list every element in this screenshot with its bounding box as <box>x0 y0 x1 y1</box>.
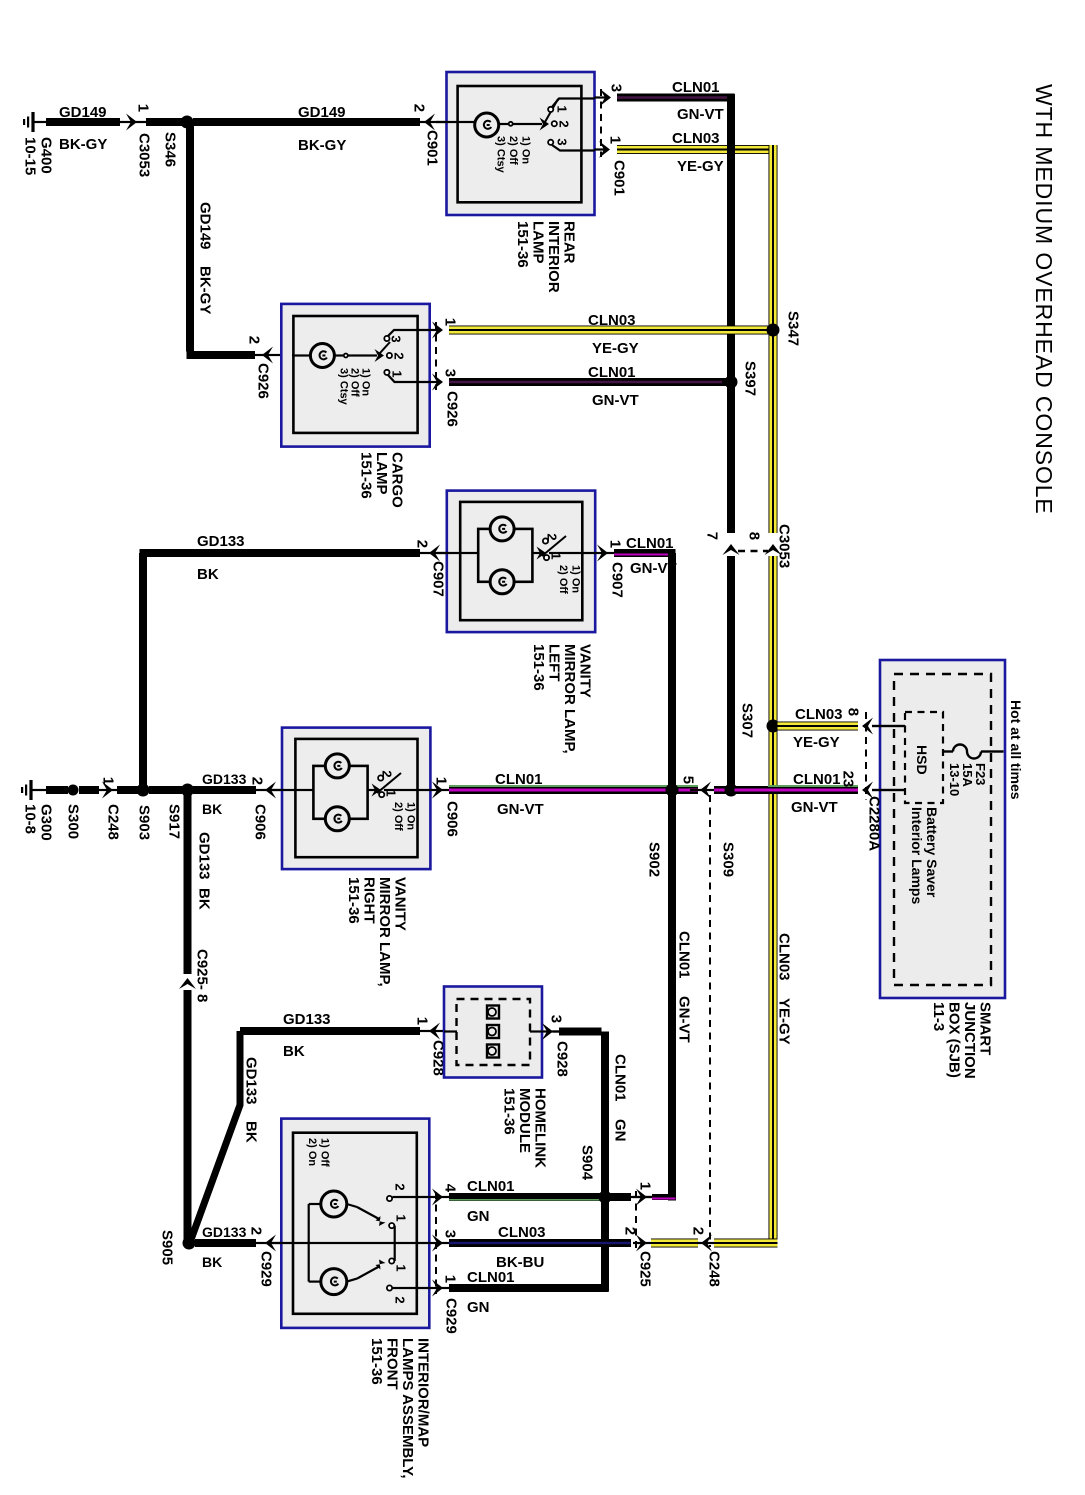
splice S307 <box>767 720 780 733</box>
svg-text:1) On: 1) On <box>569 565 581 593</box>
component SMART JUNCTION BOX (SJB) <box>880 660 1005 998</box>
wire CLN01 GN pin4 to S904 <box>449 1193 602 1201</box>
wire CLN03 YE-GY cargo to S347 <box>449 326 769 335</box>
svg-text:GN-VT: GN-VT <box>675 996 692 1043</box>
svg-text:VANITY: VANITY <box>391 877 408 931</box>
wire GD133 S300 to C248 <box>79 786 99 794</box>
component HOMELINK MODULE box <box>444 987 542 1078</box>
svg-text:C906: C906 <box>443 801 460 837</box>
svg-text:1: 1 <box>607 540 624 548</box>
svg-text:1) On: 1) On <box>519 136 531 164</box>
svg-text:2: 2 <box>246 336 263 344</box>
wire CLN01 vertical from rear lamp corner to C3053 break <box>727 94 735 533</box>
wire CLN01 GN-VT main rail C906 to S902 <box>449 786 698 794</box>
wire GD149 corner to cargo lamp C926 <box>187 351 256 359</box>
svg-text:C248: C248 <box>705 1251 722 1287</box>
svg-text:REAR: REAR <box>560 221 577 264</box>
svg-text:1: 1 <box>100 777 117 785</box>
wire CLN01 GN-VT stub to vertical <box>652 1194 676 1200</box>
svg-text:C907: C907 <box>429 561 446 597</box>
map lamps inner box <box>293 1133 417 1314</box>
svg-text:C929: C929 <box>257 1251 274 1287</box>
svg-text:S903: S903 <box>135 805 152 840</box>
svg-text:INTERIOR: INTERIOR <box>545 221 562 293</box>
wire GD133 S903 to S917 <box>149 786 182 794</box>
inline connector C925 pin 8 <box>179 978 196 989</box>
inline connector C926 pin 2 <box>262 347 273 364</box>
svg-text:C3053: C3053 <box>775 524 792 568</box>
connector C2280A pin 23 arrow <box>872 789 905 791</box>
svg-text:WTH MEDIUM OVERHEAD CONSOLE: WTH MEDIUM OVERHEAD CONSOLE <box>1031 84 1057 515</box>
svg-text:2: 2 <box>544 533 559 540</box>
svg-text:INTERIOR/MAP: INTERIOR/MAP <box>414 1338 431 1447</box>
inline connector C906 pin 2 <box>265 782 276 799</box>
svg-text:151-36: 151-36 <box>530 644 547 691</box>
svg-text:S917: S917 <box>165 804 182 839</box>
inline connector C3053 pin 1 <box>126 114 137 131</box>
svg-text:CLN01: CLN01 <box>611 1054 628 1102</box>
svg-text:S300: S300 <box>64 804 81 839</box>
svg-text:C926: C926 <box>443 391 460 427</box>
svg-text:S346: S346 <box>161 132 178 167</box>
wire GD149 BK-GY from G400 to C3053 <box>34 121 46 123</box>
splice S397 <box>725 376 738 389</box>
svg-text:2: 2 <box>690 1227 707 1235</box>
wire CLN03 YE-GY C925 to C248 <box>651 1239 698 1248</box>
label VANITY MIRROR LAMP RIGHT 151-36 <box>345 877 409 987</box>
svg-text:GD133: GD133 <box>195 832 212 880</box>
svg-text:2: 2 <box>392 1296 407 1303</box>
svg-text:3: 3 <box>608 84 625 92</box>
svg-text:1: 1 <box>433 777 450 785</box>
svg-text:S397: S397 <box>741 361 758 396</box>
svg-text:JUNCTION: JUNCTION <box>961 1002 978 1079</box>
svg-text:MIRROR LAMP,: MIRROR LAMP, <box>561 644 578 754</box>
svg-text:BK-GY: BK-GY <box>298 137 346 154</box>
cargo lamp switch lever <box>375 349 385 362</box>
rear lamp pin 3 internal wire <box>552 99 595 108</box>
map lamps switch bottom <box>347 1279 357 1282</box>
ground G400 <box>31 112 34 132</box>
svg-text:BK: BK <box>197 566 219 583</box>
vanity right switch <box>372 784 382 797</box>
svg-text:CLN01: CLN01 <box>672 79 720 96</box>
label CARGO LAMP 151-36 <box>357 452 405 508</box>
inline connector C3053 pin 7 (CLN01) <box>723 544 740 555</box>
svg-text:23: 23 <box>840 771 857 788</box>
svg-text:5: 5 <box>680 776 697 784</box>
vanity right bulb 1 <box>325 754 349 778</box>
svg-text:2: 2 <box>392 1183 407 1190</box>
svg-text:1: 1 <box>393 1214 408 1221</box>
svg-text:MIRROR LAMP,: MIRROR LAMP, <box>376 877 393 987</box>
cargo lamp bulb <box>292 354 310 356</box>
svg-text:151-36: 151-36 <box>500 1088 517 1135</box>
svg-text:3: 3 <box>554 138 569 145</box>
svg-text:151-36: 151-36 <box>345 877 362 924</box>
wire CLN03 BK-BU pin3 to C925 <box>449 1239 631 1247</box>
svg-text:2: 2 <box>248 1227 265 1235</box>
svg-text:CARGO: CARGO <box>388 452 405 508</box>
svg-text:HSD: HSD <box>914 745 930 775</box>
C3053 dashed line <box>738 550 768 553</box>
rear lamp bulb <box>436 121 475 123</box>
vanity right inner box <box>295 739 417 857</box>
rear lamp switch contacts 1,2,3 <box>548 107 553 112</box>
label GD149 BK-GY (vertical) <box>196 202 213 250</box>
svg-text:GD133: GD133 <box>242 1057 259 1105</box>
svg-text:1: 1 <box>389 370 404 377</box>
svg-text:CLN01: CLN01 <box>467 1269 515 1286</box>
svg-text:2: 2 <box>411 104 428 112</box>
inline connector C248 pin 1 <box>102 782 113 799</box>
svg-text:11-3: 11-3 <box>930 1002 947 1031</box>
svg-text:BK: BK <box>202 1254 222 1270</box>
svg-text:2: 2 <box>622 1227 639 1235</box>
vanity left bulb 1 <box>490 517 514 541</box>
svg-text:C907: C907 <box>608 562 625 598</box>
splice S309 <box>725 784 738 797</box>
svg-text:GN: GN <box>467 1299 490 1316</box>
inline connector C925 pin 2 <box>633 1242 651 1244</box>
inline connector C248 pin 5 <box>690 789 716 791</box>
svg-text:3) Ctsy: 3) Ctsy <box>337 368 349 406</box>
svg-text:1: 1 <box>414 1017 431 1025</box>
vanity left bulb 2 <box>490 570 514 594</box>
svg-text:GD149: GD149 <box>196 202 213 250</box>
connector C907 pin 1 arrow <box>595 552 616 554</box>
connector C901 pin 3 arrow <box>600 89 611 106</box>
cargo lamp connector dashed line <box>435 322 437 390</box>
wire CLN01 GN-VT from rear lamp <box>617 94 735 102</box>
vanity right bulb 2 <box>325 807 349 831</box>
svg-text:C901: C901 <box>423 130 440 166</box>
wire GD149 BK-GY from C3053 to S346 <box>146 118 182 126</box>
label Hot at all times <box>1008 700 1024 800</box>
svg-text:C248: C248 <box>104 804 121 840</box>
splice S902 <box>666 784 679 797</box>
splice S904 <box>599 1191 612 1204</box>
lamp module VANITY MIRROR LAMP RIGHT outer box <box>282 728 430 870</box>
left rail labels <box>21 804 54 841</box>
svg-text:CLN03: CLN03 <box>672 130 720 147</box>
svg-text:2: 2 <box>391 352 406 359</box>
svg-text:C926: C926 <box>254 363 271 399</box>
svg-text:7: 7 <box>704 532 721 540</box>
vanity right lamp loop <box>313 766 367 819</box>
cargo lamp switch position text <box>337 368 371 406</box>
connector C929 pin 3 arrow <box>429 1242 450 1244</box>
inline connector C928 pin 1 <box>429 1023 440 1040</box>
svg-text:GN-VT: GN-VT <box>677 106 724 123</box>
cargo lamp switch contacts 3,2,1 <box>384 336 389 341</box>
svg-text:1) On: 1) On <box>404 802 416 830</box>
title WTH MEDIUM OVERHEAD CONSOLE <box>1031 84 1057 515</box>
svg-text:BOX (SJB): BOX (SJB) <box>945 1002 962 1078</box>
map lamps connector dashed line <box>435 1192 437 1294</box>
svg-text:YE-GY: YE-GY <box>793 734 840 751</box>
svg-text:S309: S309 <box>719 842 736 877</box>
wire CLN01 GN homelink to S904 <box>559 1028 602 1036</box>
label REAR INTERIOR LAMP 151-36 <box>514 221 578 293</box>
splice S347 <box>767 324 780 337</box>
svg-text:S307: S307 <box>738 703 755 738</box>
svg-text:C3053: C3053 <box>135 133 152 177</box>
svg-text:SMART: SMART <box>976 1002 993 1055</box>
svg-text:151-36: 151-36 <box>368 1338 385 1385</box>
wire GD149 BK-GY vertical S346 to cargo lamp <box>186 122 194 352</box>
svg-text:GD149: GD149 <box>59 104 107 121</box>
splice S346 <box>181 116 194 129</box>
svg-text:LAMP: LAMP <box>373 452 390 495</box>
cargo lamp inner box <box>293 316 417 433</box>
svg-text:C925: C925 <box>636 1251 653 1287</box>
svg-text:3: 3 <box>388 335 403 342</box>
svg-text:Battery Saver: Battery Saver <box>924 807 940 898</box>
svg-text:1: 1 <box>607 136 624 144</box>
inline connector C901 pin 2 <box>424 114 435 131</box>
lamp module INTERIOR/MAP LAMPS ASSEMBLY outer box <box>281 1119 429 1328</box>
svg-text:C901: C901 <box>610 160 627 196</box>
connector C929 pin 4 arrow <box>429 1196 450 1198</box>
ground G300 <box>29 780 32 800</box>
wire GD133 C248 to S903 <box>117 786 138 794</box>
wire GD133 to homelink <box>189 1031 240 1245</box>
wire CLN03 YE-GY from rear lamp <box>617 145 778 154</box>
svg-text:CLN03: CLN03 <box>498 1224 546 1241</box>
svg-text:GN-VT: GN-VT <box>592 392 639 409</box>
C925 connector dashed line <box>635 1191 637 1251</box>
svg-text:2: 2 <box>379 770 394 777</box>
svg-text:2: 2 <box>556 120 571 127</box>
svg-text:CLN03: CLN03 <box>795 706 843 723</box>
homelink buttons <box>487 1006 499 1019</box>
svg-text:S905: S905 <box>158 1230 175 1265</box>
C2280A dashed line <box>865 712 867 800</box>
svg-text:G400: G400 <box>37 137 54 174</box>
connector C926 pin 3 arrow <box>432 374 443 391</box>
svg-text:FRONT: FRONT <box>383 1338 400 1390</box>
homelink inner dashed box <box>457 999 531 1065</box>
svg-text:BK: BK <box>195 888 212 910</box>
svg-text:1: 1 <box>554 105 569 112</box>
svg-text:8: 8 <box>746 532 763 540</box>
cargo lamp pin 3 internal wire <box>388 375 430 382</box>
vanity left switch position text <box>557 565 582 594</box>
label VANITY MIRROR LAMP LEFT 151-36 <box>530 644 594 754</box>
svg-text:1: 1 <box>442 1275 459 1283</box>
wire CLN01 vertical from vanity left to C925 <box>668 553 676 1201</box>
wire CLN01 GN-VT S309 to C2280A <box>735 786 859 794</box>
svg-text:Hot at all times: Hot at all times <box>1008 700 1024 800</box>
vanity right mid wire <box>272 789 313 791</box>
splice S905 <box>183 1237 196 1250</box>
svg-text:CLN01: CLN01 <box>588 364 636 381</box>
vanity right switch position text <box>392 802 417 831</box>
wire GD149 BK-GY from S346 to C901 <box>193 118 420 126</box>
svg-text:13-10: 13-10 <box>947 763 962 796</box>
inline connector C925 pin 1 <box>633 1196 652 1198</box>
label Battery Saver Interior Lamps <box>909 807 940 904</box>
svg-text:151-36: 151-36 <box>357 452 374 499</box>
lamp module CARGO LAMP outer box <box>281 304 429 447</box>
svg-text:1) Off: 1) Off <box>318 1138 330 1167</box>
map lamps bulb 2 <box>321 1269 347 1295</box>
label SMART JUNCTION BOX (SJB) 11-3 <box>930 1002 993 1079</box>
lamp module REAR INTERIOR LAMP outer box <box>447 72 595 215</box>
svg-text:GD133: GD133 <box>202 771 247 787</box>
inline connector C929 pin 2 <box>265 1235 276 1252</box>
wire GD133 G300 to S300 <box>32 789 46 791</box>
svg-text:CLN01: CLN01 <box>793 771 841 788</box>
svg-text:CLN01: CLN01 <box>467 1178 515 1195</box>
vanity left lamp loop <box>478 529 532 582</box>
svg-text:CLN03: CLN03 <box>775 933 792 981</box>
svg-text:GN: GN <box>467 1208 490 1225</box>
svg-text:BK: BK <box>202 801 222 817</box>
label HOMELINK MODULE 151-36 <box>500 1088 548 1168</box>
svg-text:1: 1 <box>442 318 459 326</box>
svg-text:151-36: 151-36 <box>514 221 531 268</box>
rear lamp inner box <box>458 86 582 202</box>
svg-text:S904: S904 <box>578 1145 595 1181</box>
wire CLN03 vertical S307 down to front lamps <box>769 722 778 1248</box>
svg-text:3: 3 <box>442 1230 459 1238</box>
svg-text:GN-VT: GN-VT <box>791 799 838 816</box>
svg-text:8: 8 <box>845 708 862 716</box>
svg-text:LAMPS ASSEMBLY,: LAMPS ASSEMBLY, <box>399 1338 416 1479</box>
wire CLN03 vertical from rear lamp corner to C3053 break <box>769 145 778 533</box>
SJB inner dashed outline <box>894 674 991 985</box>
C248 connector dashed line <box>709 795 711 1247</box>
svg-text:GD149: GD149 <box>298 104 346 121</box>
svg-text:1: 1 <box>135 104 152 112</box>
svg-text:MODULE: MODULE <box>516 1088 533 1153</box>
fuse F23 15A <box>981 750 1004 752</box>
splice S300 <box>68 785 79 796</box>
wire CLN01 S904 to C925 pin 1 <box>609 1193 631 1201</box>
rear lamp pin 1 internal wire <box>552 145 595 151</box>
svg-text:C906: C906 <box>251 804 268 840</box>
svg-text:C929: C929 <box>442 1298 459 1334</box>
svg-text:YE-GY: YE-GY <box>775 998 792 1045</box>
connector C2280A pin 8 arrow <box>872 725 905 727</box>
svg-text:GD133: GD133 <box>283 1011 331 1028</box>
splice S917 <box>181 784 194 797</box>
map lamps right common bus <box>394 1226 396 1261</box>
svg-text:C928: C928 <box>553 1041 570 1077</box>
wire GD133 S917 to C906 <box>193 786 256 794</box>
wire CLN01 GN pin1 to S904 vertical <box>449 1284 609 1292</box>
svg-text:LAMP: LAMP <box>529 221 546 264</box>
wire CLN01 GN-VT cargo to S397 <box>449 378 728 386</box>
wire GD133 S917 down to S905 <box>184 790 192 974</box>
svg-text:RIGHT: RIGHT <box>360 877 377 924</box>
svg-text:CLN01: CLN01 <box>626 535 674 552</box>
lamp module VANITY MIRROR LAMP LEFT outer box <box>447 491 595 632</box>
svg-text:HOMELINK: HOMELINK <box>531 1088 548 1168</box>
cargo lamp switch wire <box>334 354 377 356</box>
svg-text:2) Off: 2) Off <box>507 136 519 165</box>
label splice S346 <box>161 132 178 167</box>
svg-text:BK: BK <box>283 1043 305 1060</box>
inline connector C248 pin 2 <box>697 1242 716 1244</box>
svg-text:4: 4 <box>442 1184 459 1193</box>
svg-text:1: 1 <box>637 1182 654 1190</box>
map lamps switch top <box>347 1204 357 1207</box>
svg-text:CLN01: CLN01 <box>675 931 692 979</box>
svg-text:GN: GN <box>611 1119 628 1142</box>
svg-text:GN-VT: GN-VT <box>497 801 544 818</box>
svg-text:3: 3 <box>548 1015 565 1023</box>
connector C928 pin 3 arrow <box>553 1030 560 1032</box>
rear lamp switch wire and contacts <box>499 123 542 125</box>
map lamps bulb 1 <box>321 1191 347 1217</box>
rear lamp connector dashed line <box>600 89 602 157</box>
svg-text:2) Off: 2) Off <box>557 565 569 594</box>
svg-text:GD133: GD133 <box>202 1224 247 1240</box>
wire GD133 S905 to C929 <box>195 1239 256 1247</box>
svg-text:2) Off: 2) Off <box>392 802 404 831</box>
svg-text:2: 2 <box>249 777 266 785</box>
svg-text:BK-GY: BK-GY <box>59 136 107 153</box>
svg-text:GD133: GD133 <box>197 533 245 550</box>
wire CLN03 YE-GY C248 to corner <box>714 1239 778 1248</box>
svg-text:2: 2 <box>414 540 431 548</box>
svg-text:YE-GY: YE-GY <box>677 158 724 175</box>
svg-text:S347: S347 <box>784 311 801 346</box>
svg-text:CLN03: CLN03 <box>588 312 636 329</box>
svg-text:Interior Lamps: Interior Lamps <box>909 807 925 904</box>
svg-text:YE-GY: YE-GY <box>592 340 639 357</box>
svg-text:LEFT: LEFT <box>545 644 562 682</box>
cargo lamp pin 1 internal wire <box>388 330 430 336</box>
svg-text:S902: S902 <box>645 842 662 877</box>
vanity left switch <box>537 547 547 560</box>
connector C929 pin 1 arrow <box>429 1287 450 1289</box>
vanity left mid wire <box>437 552 478 554</box>
svg-text:10-8: 10-8 <box>21 804 38 834</box>
svg-text:BK-GY: BK-GY <box>196 266 213 314</box>
map lamps left bus <box>308 1204 310 1282</box>
svg-text:C2280A: C2280A <box>865 796 882 851</box>
rear lamp switch position text <box>494 136 531 174</box>
connector C901 pin 1 arrow <box>599 141 610 158</box>
wire GD133 from S903 up to vanity left <box>139 553 147 787</box>
wire CLN01 GN-VT from vanity left <box>614 549 676 557</box>
svg-text:3: 3 <box>442 369 459 377</box>
inline connector C907 pin 2 <box>429 545 440 562</box>
connector C926 pin 1 arrow <box>432 322 443 339</box>
svg-text:C925- 8: C925- 8 <box>193 949 210 1002</box>
svg-text:2) On: 2) On <box>306 1138 318 1166</box>
svg-text:CLN01: CLN01 <box>495 771 543 788</box>
inline connector C3053 pin 8 (CLN03) <box>765 544 782 555</box>
map lamps switch position text <box>306 1138 331 1167</box>
connector C906 pin 1 arrow <box>430 789 450 791</box>
svg-text:G300: G300 <box>37 804 54 841</box>
map lamps main wire <box>272 1242 429 1244</box>
wire CLN01 GN-VT S309 segment <box>714 786 728 794</box>
label INTERIOR/MAP LAMPS ASSEMBLY FRONT 151-36 <box>368 1338 432 1479</box>
SJB HSD dashed box <box>905 712 943 803</box>
svg-text:VANITY: VANITY <box>576 644 593 698</box>
svg-text:1: 1 <box>393 1264 408 1271</box>
rear lamp switch lever <box>540 118 550 131</box>
svg-text:3) Ctsy: 3) Ctsy <box>494 136 506 174</box>
svg-text:BK: BK <box>242 1121 259 1143</box>
vanity left inner box <box>460 502 582 620</box>
